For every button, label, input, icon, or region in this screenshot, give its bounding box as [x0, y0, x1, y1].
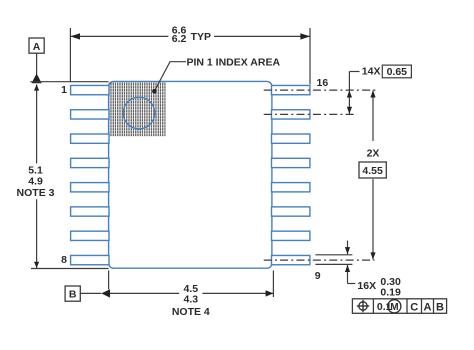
dimension 2X 4.55 line upper [372, 90, 374, 141]
feature control frame box [352, 299, 446, 314]
svg-text:B: B [436, 301, 444, 313]
arrow right of 4.5 dim [266, 290, 274, 296]
datum A stem [36, 53, 38, 74]
boxed value 0.65 [382, 65, 411, 78]
dimension 6.6/6.2 TYP line [70, 35, 168, 37]
dimension 0.30/0.19 lower arrow line and leader [347, 265, 349, 284]
pin 11 [272, 207, 310, 216]
svg-text:4.9: 4.9 [28, 176, 43, 188]
svg-text:9: 9 [315, 270, 321, 282]
svg-text:1: 1 [61, 84, 67, 96]
arrow up at pin16 centerline [347, 90, 352, 97]
svg-text:A: A [424, 301, 432, 313]
dimension 0.65 pitch leader [349, 71, 359, 73]
centerline pin 15 [264, 113, 357, 115]
dimension 4.5/4.3 line [110, 292, 179, 294]
svg-text:PIN 1 INDEX AREA: PIN 1 INDEX AREA [187, 57, 281, 69]
arrow left of 4.5 dim [101, 289, 110, 297]
svg-text:8: 8 [61, 254, 67, 266]
svg-text:0.19: 0.19 [380, 287, 401, 299]
svg-text:TYP: TYP [191, 31, 211, 43]
svg-text:C: C [410, 301, 418, 313]
pin 12 [272, 183, 310, 192]
dimension 0.30/0.19 upper arrow line [347, 241, 349, 255]
pin 14 [272, 134, 310, 143]
pin 10 [272, 231, 310, 240]
pin 6 [71, 207, 109, 216]
svg-text:NOTE 4: NOTE 4 [172, 306, 210, 318]
arrow up at pin16 centerline for 4.55 [370, 90, 375, 97]
pin 1 index area stipple [109, 82, 165, 136]
arrow up of 5.1 dim [34, 84, 39, 90]
leader PIN 1 INDEX AREA [155, 62, 187, 91]
pin 1 index circle [123, 97, 155, 129]
dimension 5.1/4.9 line lower segment [36, 199, 38, 268]
svg-text:5.1: 5.1 [28, 164, 43, 176]
extension line body top edge to datum A [30, 81, 108, 83]
pin 4 [71, 158, 109, 167]
datum A triangle [32, 74, 42, 84]
svg-text:4.55: 4.55 [362, 165, 383, 177]
arrow right of 6.6 dim [300, 33, 310, 39]
svg-text:6.2: 6.2 [172, 33, 187, 45]
dimension 5.1/4.9 line upper segment [36, 84, 38, 163]
pin 2 [71, 110, 109, 119]
svg-text:4.3: 4.3 [183, 293, 198, 305]
pin 16 [272, 85, 310, 94]
arrow down of 5.1 dim [34, 262, 39, 268]
centerline pin 16 [264, 89, 379, 91]
svg-text:2X: 2X [367, 148, 380, 160]
extension line body bottom edge to 5.1 dim [31, 268, 109, 270]
pin 9 [272, 255, 310, 264]
datum A symbol box [29, 38, 44, 53]
datum B leader line [80, 292, 101, 294]
pin 5 [71, 183, 109, 192]
svg-text:A: A [33, 41, 41, 53]
pin 15 [272, 110, 310, 119]
dimension 2X 4.55 line lower [372, 179, 374, 260]
boxed value 4.55 [359, 162, 386, 178]
svg-text:16: 16 [317, 77, 329, 89]
svg-text:14X: 14X [362, 66, 381, 78]
extension line pin9 top edge [315, 254, 352, 256]
arrow down at pin15 centerline [347, 107, 352, 114]
extension line pin9 bottom edge [315, 263, 352, 265]
extension line body right edge down [272, 271, 274, 298]
dimension 6.6/6.2 TYP extension line right [309, 28, 311, 84]
pin 8 [71, 255, 109, 264]
svg-text:NOTE 3: NOTE 3 [17, 187, 55, 199]
datum B symbol box [65, 286, 80, 301]
arrow left of 6.6 dim [70, 33, 80, 39]
pin 1 [71, 85, 109, 94]
package body outline [109, 81, 272, 268]
pin 7 [71, 231, 109, 240]
pin 13 [272, 158, 310, 167]
centerline pin 9 [264, 259, 375, 261]
svg-text:M: M [390, 302, 398, 313]
svg-text:0.65: 0.65 [387, 66, 408, 78]
position tolerance symbol [359, 302, 367, 310]
arrow down at pin9 centerline for 4.55 [370, 252, 375, 259]
svg-text:16X: 16X [357, 280, 376, 292]
svg-text:B: B [69, 289, 77, 301]
extension line body left edge down [108, 271, 110, 290]
dimension 6.6/6.2 TYP extension line left [69, 28, 71, 82]
pin 3 [71, 134, 109, 143]
